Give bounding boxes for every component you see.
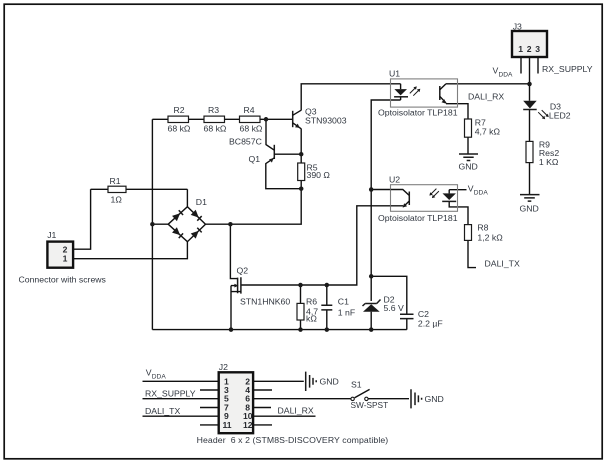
resistor R8 — [465, 223, 504, 243]
svg-text:GND: GND — [425, 394, 444, 404]
svg-text:68 kΩ: 68 kΩ — [168, 124, 191, 134]
transistor Q3 — [293, 107, 347, 129]
svg-text:J3: J3 — [513, 22, 522, 32]
svg-text:C2: C2 — [418, 309, 429, 319]
svg-text:2: 2 — [527, 44, 532, 54]
resistor R6 — [297, 297, 318, 324]
wire: left vertical bus x=152.4 (R2 row down to bottom rail) — [151, 119, 153, 329]
optoisolator U2 — [378, 175, 458, 224]
svg-text:GND: GND — [320, 377, 339, 387]
svg-text:DALI_RX: DALI_RX — [278, 406, 314, 416]
zener diode D2 — [363, 295, 404, 314]
svg-text:R6: R6 — [306, 297, 317, 307]
wire: J3 pin 3 stub — [537, 57, 539, 73]
svg-text:RX_SUPPLY: RX_SUPPLY — [145, 389, 196, 399]
svg-text:R8: R8 — [477, 223, 488, 233]
net label VDDA at J3 — [493, 66, 514, 79]
svg-text:1: 1 — [518, 44, 523, 54]
wire: D2 anode to bottom rail — [370, 312, 372, 330]
resistor R5 — [298, 163, 331, 181]
svg-text:GND: GND — [520, 204, 539, 214]
wire: U2 LED cathode to R8 to DALI_TX — [449, 201, 476, 267]
svg-text:2.2 µF: 2.2 µF — [418, 319, 443, 329]
wire: J2 pin9 row (DALI_TX) — [143, 415, 219, 417]
svg-text:STN1HNK60: STN1HNK60 — [240, 297, 290, 307]
svg-text:1Ω: 1Ω — [111, 195, 123, 205]
resistor R4 — [240, 105, 263, 134]
svg-text:DALI_RX: DALI_RX — [468, 92, 504, 102]
transistor Q2 (MOSFET) — [231, 266, 290, 307]
svg-text:R3: R3 — [208, 105, 219, 115]
wire: Q2 drain rail to U2 emitter riser — [241, 206, 391, 285]
wire: VDDA rail from U1 collector to J3 pin2 column — [446, 83, 530, 85]
wire: R5 leads — [300, 154, 302, 189]
ground at J2 pin2 (sideways) — [306, 372, 339, 391]
wire: J2 pin6 row to switch S1 — [253, 398, 351, 400]
svg-text:DDA: DDA — [152, 374, 167, 381]
bridge rectifier D1 — [168, 197, 207, 242]
wire: J2 pin11 stub — [200, 424, 219, 426]
wire: bottom rail — [152, 329, 406, 331]
svg-text:R1: R1 — [110, 176, 121, 186]
wire: R1 row and drop to bridge top — [91, 189, 188, 206]
connector J3 — [512, 22, 547, 58]
svg-text:390 Ω: 390 Ω — [307, 170, 331, 180]
svg-text:Q2: Q2 — [237, 266, 249, 276]
wire: J2 pin12 stub — [253, 424, 272, 426]
svg-text:3: 3 — [535, 44, 540, 54]
svg-text:4,7 kΩ: 4,7 kΩ — [475, 127, 501, 137]
wire: R2-R3-R4 row from left vertical to Q3 base — [152, 118, 292, 120]
svg-text:Connector with screws: Connector with screws — [19, 275, 107, 285]
svg-text:U1: U1 — [389, 69, 400, 79]
wire: tap to C2 top — [371, 276, 407, 329]
wire: U2 LED anode stub to VDDA label — [449, 189, 466, 191]
wire: bridge right vertex to R5 bottom column — [206, 189, 302, 225]
wire: U1 LED cathode left and long vertical to D2 — [371, 100, 400, 301]
wire: J2 pin5 row (RX_SUPPLY) — [143, 398, 219, 400]
connector J1 — [19, 230, 107, 285]
wire: J1 pin1 to bridge bottom — [73, 242, 187, 259]
wire: J2 pin2 row to GND — [253, 380, 304, 382]
switch S1 — [351, 380, 389, 411]
wire: J2 pin7 stub — [200, 407, 219, 409]
ground under R7 — [459, 154, 479, 172]
wire: J3 pin2 down to D3 and R9 column — [529, 84, 531, 195]
svg-text:DDA: DDA — [499, 72, 514, 79]
svg-text:R4: R4 — [244, 105, 255, 115]
wire: J3 pin 2 stub — [529, 57, 531, 84]
ground under R9 — [520, 195, 540, 214]
svg-text:68 kΩ: 68 kΩ — [240, 124, 263, 134]
svg-text:D1: D1 — [196, 197, 207, 207]
capacitor C2 — [400, 309, 443, 329]
resistor R9 — [526, 140, 559, 168]
svg-text:68 kΩ: 68 kΩ — [204, 124, 227, 134]
resistor R7 — [465, 118, 501, 138]
svg-text:C1: C1 — [338, 297, 349, 307]
wire: U1 emitter to R7 and GND — [446, 104, 468, 154]
svg-text:J1: J1 — [47, 230, 56, 240]
svg-text:LED2: LED2 — [549, 111, 571, 121]
wire: J2 pin8 stub — [253, 407, 271, 409]
capacitor C1 — [321, 297, 355, 318]
wire: J2 pin4 stub — [253, 389, 272, 391]
wire: Q2 source down to bottom rail — [230, 286, 232, 330]
wire: C1 leads — [326, 285, 328, 330]
svg-text:BC857C: BC857C — [229, 137, 262, 147]
LED D3 — [523, 101, 571, 121]
svg-text:DALI_TX: DALI_TX — [145, 406, 180, 416]
wire: bridge left vertex to vertical bus — [152, 223, 168, 225]
svg-text:J2: J2 — [219, 362, 228, 372]
svg-text:U2: U2 — [389, 175, 400, 185]
svg-text:S1: S1 — [351, 380, 362, 390]
wire: J3 pin 1 stub — [520, 57, 522, 73]
ground after S1 (sideways) — [411, 389, 444, 408]
transistor Q1 — [229, 119, 301, 188]
wire: Q3 collector up and top rail to U1 LED anode — [301, 84, 400, 111]
svg-text:1 nF: 1 nF — [338, 308, 355, 318]
svg-text:R2: R2 — [174, 105, 185, 115]
svg-text:Q1: Q1 — [249, 154, 261, 164]
svg-text:kΩ: kΩ — [306, 314, 317, 324]
svg-text:1: 1 — [63, 254, 68, 264]
resistor R3 — [204, 105, 227, 134]
svg-text:DALI_TX: DALI_TX — [485, 259, 520, 269]
svg-text:Header 6 x 2 (STM8S-DISCOVERY: Header 6 x 2 (STM8S-DISCOVERY compatible… — [197, 435, 389, 445]
svg-text:Optoisolator TLP181: Optoisolator TLP181 — [378, 213, 458, 223]
svg-text:1,2 kΩ: 1,2 kΩ — [477, 233, 503, 243]
svg-text:11: 11 — [223, 420, 232, 430]
svg-text:1 KΩ: 1 KΩ — [539, 157, 559, 167]
wire: Q2 gate tap — [230, 224, 237, 278]
svg-text:GND: GND — [459, 162, 478, 172]
wire: R6 leads — [300, 285, 302, 330]
wire: J1 pin2 to R1 — [73, 189, 91, 249]
wire: J2 pin3 stub — [200, 389, 219, 391]
wire: S1 to GND — [368, 398, 409, 400]
optoisolator U1 — [378, 69, 458, 118]
svg-text:STN93003: STN93003 — [305, 116, 347, 126]
resistor R1 — [108, 176, 126, 205]
wire: Q3 emitter down to R5 top node — [300, 129, 302, 155]
svg-text:SW-SPST: SW-SPST — [351, 400, 389, 410]
svg-text:Optoisolator TLP181: Optoisolator TLP181 — [378, 108, 458, 118]
resistor R2 — [168, 105, 191, 134]
svg-text:5.6 V: 5.6 V — [384, 303, 404, 313]
net label VDDA at J2 — [146, 368, 167, 381]
svg-text:12: 12 — [243, 420, 253, 430]
wire: J2 pin1 row (VDDA) — [143, 380, 219, 382]
net label VDDA at U2 — [468, 184, 489, 197]
wire: J2 pin10 row (DALI_RX) — [253, 415, 315, 417]
svg-text:RX_SUPPLY: RX_SUPPLY — [542, 64, 593, 74]
wire: tap to U2 transistor collector — [371, 189, 391, 191]
svg-text:DDA: DDA — [474, 190, 489, 197]
connector J2 header — [197, 362, 389, 445]
